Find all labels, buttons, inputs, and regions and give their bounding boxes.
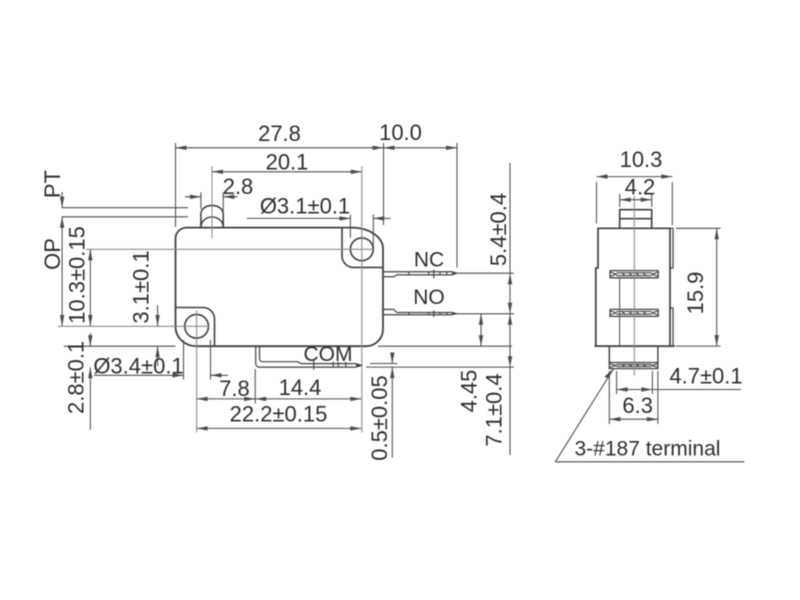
dim line 7.8 and 14.4 — [197, 398, 362, 400]
arrows 2.8+-0.1 (outside) — [88, 335, 92, 346]
arrows 7.1 — [508, 314, 512, 325]
svg-text:2.8: 2.8 — [223, 174, 254, 199]
dim line 2.8 outside arrows — [185, 196, 238, 198]
arrows 15.9 — [715, 228, 719, 239]
NC terminal blade — [384, 272, 453, 277]
dim line 5.4 and 7.1 column — [509, 163, 511, 455]
leader line 187 terminal — [555, 369, 744, 462]
svg-text:3.1±0.1: 3.1±0.1 — [129, 250, 154, 323]
arrows 3.1+-0.1 (outside) — [155, 315, 159, 326]
side view body — [595, 228, 676, 346]
arrow PT bottom / OP top — [60, 217, 64, 228]
ext line body bottom right — [378, 345, 512, 347]
svg-text:Ø3.4±0.1: Ø3.4±0.1 — [93, 354, 183, 379]
centerline top-right hole vertical — [361, 167, 363, 433]
ext line COM blade top 0.5 — [370, 363, 398, 365]
dia 3.4 dim line — [94, 374, 228, 376]
svg-text:4.7±0.1: 4.7±0.1 — [669, 364, 742, 389]
dim line 10.0 — [384, 147, 458, 149]
centerline bottom-left hole horizontal — [58, 325, 210, 327]
svg-text:3-#187 terminal: 3-#187 terminal — [575, 438, 721, 461]
ext lines plunger 2.8 — [201, 192, 223, 211]
ext line NO tip right — [458, 313, 514, 315]
arrows 2.8 (outside) — [190, 195, 201, 199]
dim line 10.3 — [89, 249, 91, 326]
arrows 0.5 (outside) — [390, 353, 394, 364]
ext line terminal tip 10.0 — [456, 143, 458, 268]
arrows 4.45 — [479, 314, 483, 325]
side view COM terminal slot — [609, 363, 658, 369]
dim line 3.1+-0.1 — [157, 305, 159, 366]
svg-text:4.45: 4.45 — [457, 370, 482, 413]
svg-text:15.9: 15.9 — [683, 272, 708, 315]
svg-text:5.4±0.4: 5.4±0.4 — [486, 193, 511, 266]
OP dim line — [61, 217, 63, 326]
dim line 0.5+-0.05 — [391, 353, 393, 458]
dim line 4.2 — [620, 199, 652, 201]
ext lines 10.3 side — [597, 182, 673, 225]
ext lines 4.7 — [617, 371, 653, 394]
COM terminal blade — [256, 346, 357, 367]
dim line 4.45 — [480, 314, 482, 346]
dim line 6.3 — [609, 418, 658, 420]
ext lines 15.9 — [676, 228, 721, 346]
svg-text:OP: OP — [40, 238, 65, 270]
arrows 20.1 — [212, 170, 223, 174]
plunger (push button) — [201, 214, 223, 228]
svg-text:Ø3.1±0.1: Ø3.1±0.1 — [260, 194, 350, 219]
dim line 27.8 — [176, 147, 384, 149]
arrowheads main view — [60, 146, 512, 431]
bottom-left mounting boss — [176, 308, 215, 347]
svg-text:0.5±0.05: 0.5±0.05 — [367, 375, 392, 460]
dim line 10.3 side — [597, 176, 673, 178]
svg-text:NC: NC — [414, 249, 444, 272]
ext line body left top — [175, 143, 177, 227]
dia 3.4 ext lines — [184, 340, 211, 380]
arrows 10.0 — [384, 146, 395, 150]
ext line COM blade bottom right — [366, 366, 514, 368]
bottom-left mounting hole Ø3.4 — [185, 314, 209, 338]
arrowheads side view — [597, 174, 719, 421]
svg-text:10.0: 10.0 — [379, 120, 422, 145]
arrows 22.2 — [197, 426, 208, 430]
dia 3.1 ext lines — [350, 215, 373, 251]
arrows dia3.4 (outside) — [173, 373, 184, 377]
arrows 7.8 — [197, 397, 208, 401]
arrows 10.3 side — [597, 174, 608, 178]
ext line body bottom left — [64, 345, 176, 347]
dia 3.1 dim line — [247, 217, 391, 219]
NO terminal blade — [384, 309, 453, 314]
leader arrowhead — [605, 369, 614, 379]
svg-text:COM: COM — [304, 343, 353, 366]
arrows 27.8 — [176, 146, 187, 150]
arrows dia3.1 (outside) — [339, 216, 350, 220]
arrow OP bottom — [60, 315, 64, 326]
arrows 5.4 — [508, 273, 512, 284]
dim line 22.2 — [197, 427, 362, 429]
plunger pressed position arc — [201, 217, 223, 227]
side view NC terminal slot — [610, 271, 658, 278]
ext line COM left 7.8/14.4 — [254, 369, 256, 404]
top-right mounting hole Ø3.1 — [350, 238, 373, 261]
svg-text:4.2: 4.2 — [625, 175, 656, 200]
PT ext lines — [62, 208, 188, 217]
dim line 20.1 — [212, 171, 362, 173]
svg-text:2.8±0.1: 2.8±0.1 — [64, 341, 89, 414]
svg-text:27.8: 27.8 — [258, 121, 301, 146]
arrows 14.4 — [255, 397, 266, 401]
side view centerline — [633, 196, 635, 376]
centerline top-right hole horizontal — [86, 248, 374, 250]
ext line body right top — [383, 143, 385, 225]
svg-text:14.4: 14.4 — [279, 375, 322, 400]
dim line 4.7 — [617, 389, 741, 391]
side view NO terminal slot — [610, 309, 658, 316]
arrows 6.3 — [609, 417, 620, 421]
svg-text:10.3±0.15: 10.3±0.15 — [65, 226, 90, 324]
dim line 15.9 — [716, 228, 718, 346]
svg-text:7.8: 7.8 — [219, 376, 250, 401]
arrows 10.3 — [88, 249, 92, 260]
top-right mounting boss — [342, 228, 383, 268]
side view plunger — [620, 210, 652, 229]
svg-text:PT: PT — [40, 170, 65, 198]
svg-text:6.3: 6.3 — [622, 393, 653, 418]
side view interior edge line — [619, 278, 621, 346]
side view COM terminal holder — [609, 346, 658, 362]
svg-text:20.1: 20.1 — [266, 150, 309, 175]
centerline bottom-left hole vertical — [196, 311, 198, 433]
ext lines 6.3 — [609, 371, 658, 424]
arrows 4.7 — [617, 387, 628, 391]
side view body right lip — [670, 228, 673, 346]
switch body — [176, 228, 384, 347]
svg-text:7.1±0.4: 7.1±0.4 — [482, 373, 507, 446]
ext lines 4.2 — [620, 194, 652, 207]
arrow PT top — [60, 197, 64, 208]
dim line 2.8+-0.1 — [89, 333, 91, 430]
PT dim line — [61, 192, 63, 208]
svg-text:10.3: 10.3 — [620, 147, 663, 172]
svg-text:22.2±0.15: 22.2±0.15 — [230, 402, 328, 427]
arrows 4.2 — [620, 198, 631, 202]
svg-text:NO: NO — [413, 286, 445, 309]
ext line NC tip right — [458, 272, 514, 274]
centerline plunger — [211, 167, 213, 239]
